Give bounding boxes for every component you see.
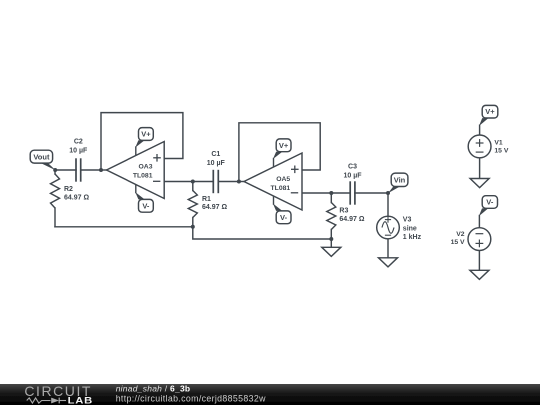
node flag V+ <box>479 125 481 136</box>
svg-text:LAB: LAB <box>68 396 93 405</box>
wire V3 to ground <box>387 239 389 258</box>
svg-text:R1: R1 <box>202 196 211 203</box>
wire to ground <box>479 158 481 179</box>
wire to ground <box>478 251 480 271</box>
svg-text:TL081: TL081 <box>133 172 153 179</box>
junction node rail left <box>191 225 195 229</box>
resistor R3 <box>327 203 336 230</box>
junction node rail right <box>329 237 333 241</box>
+ marker <box>385 217 391 223</box>
wire C1 to OA5 output node <box>218 181 239 183</box>
voltage source V1 <box>468 105 509 187</box>
svg-text:64.97 Ω: 64.97 Ω <box>339 216 364 223</box>
svg-text:V+: V+ <box>141 130 151 139</box>
node flag V- <box>478 215 480 228</box>
svg-text:1 kHz: 1 kHz <box>403 234 422 241</box>
svg-text:V-: V- <box>280 213 288 222</box>
capacitor C2 <box>76 158 81 181</box>
capacitor C1 <box>213 170 218 193</box>
svg-text:Vout: Vout <box>33 152 50 161</box>
wire R2 top lead <box>54 170 56 174</box>
ground below V1 <box>470 179 489 188</box>
ground below V3 <box>379 258 398 267</box>
junction node at OA3 output <box>99 168 103 172</box>
op-amp U2 OA5 <box>244 153 302 210</box>
svg-text:http://circuitlab.com/cerjd885: http://circuitlab.com/cerjd8855832w <box>116 393 266 403</box>
svg-text:V+: V+ <box>485 107 495 116</box>
svg-text:C1: C1 <box>211 151 220 158</box>
svg-text:C3: C3 <box>348 163 357 170</box>
- input marker <box>153 180 160 182</box>
svg-text:TL081: TL081 <box>271 185 291 192</box>
sine glyph <box>382 222 394 234</box>
svg-text:V1: V1 <box>494 140 503 147</box>
wire ground stem below R3 <box>330 239 332 247</box>
svg-text:OA3: OA3 <box>139 163 153 170</box>
voltage source V3 (sine) <box>377 216 422 241</box>
ground below R3 <box>322 247 341 256</box>
svg-text:C2: C2 <box>74 139 83 146</box>
svg-text:10 µF: 10 µF <box>69 147 88 154</box>
ground below V2 <box>470 270 489 279</box>
svg-text:10 µF: 10 µF <box>207 160 226 167</box>
junction node at OA5 output <box>237 180 241 184</box>
wire bottom rail R2 to R1 <box>55 226 193 228</box>
node flag Vin <box>388 173 408 193</box>
wire R3 bottom lead <box>330 230 332 240</box>
wire C3 to Vin node <box>355 192 388 194</box>
wire Vin node down to V3 <box>387 193 389 216</box>
junction node at R1 top <box>191 180 195 184</box>
node flag V- (OA5 power) <box>273 196 291 224</box>
junction node at Vin <box>386 191 390 195</box>
- marker <box>385 234 391 236</box>
wire R1 top lead <box>192 182 194 191</box>
svg-text:R2: R2 <box>64 186 73 193</box>
V2 body <box>468 228 491 251</box>
wire OA3 inverting input to R1 node <box>164 181 213 183</box>
wire R1 bottom lead <box>192 218 194 227</box>
svg-text:15 V: 15 V <box>494 148 508 155</box>
CircuitLab logo: diode symbol <box>51 398 59 404</box>
wire OA5 output stub <box>239 181 244 183</box>
CircuitLab logo: resistor squiggle <box>27 398 51 403</box>
+ input marker <box>153 154 161 162</box>
op-amp U1 OA3 <box>107 142 165 199</box>
junction node at R3 top <box>329 191 333 195</box>
node flag V- (OA3 power) <box>135 184 153 212</box>
wire Vout node to C2 <box>55 169 76 171</box>
resistor R1 <box>188 191 197 218</box>
svg-text:sine: sine <box>403 226 417 233</box>
svg-text:64.97 Ω: 64.97 Ω <box>64 194 89 201</box>
junction node at Vout <box>53 168 57 172</box>
svg-text:15 V: 15 V <box>451 239 465 246</box>
svg-text:ninad_shah / 6_3b: ninad_shah / 6_3b <box>116 383 191 393</box>
V1 body <box>468 135 491 158</box>
wire R3 top lead <box>330 193 332 203</box>
node flag V+ (OA5 power) <box>273 139 291 167</box>
svg-text:64.97 Ω: 64.97 Ω <box>202 204 227 211</box>
wire OA5 feedback loop <box>239 123 320 182</box>
svg-text:Vin: Vin <box>394 175 406 184</box>
svg-text:V-: V- <box>486 198 494 207</box>
wire C2 to OA3 output node <box>81 169 101 171</box>
voltage source V2 <box>451 196 498 280</box>
svg-text:V2: V2 <box>456 231 465 238</box>
wire OA3 output stub <box>101 169 107 171</box>
wire R2 bottom lead <box>54 208 56 227</box>
svg-text:V3: V3 <box>403 217 412 224</box>
resistor R2 <box>51 174 60 208</box>
wire OA3 feedback loop <box>101 113 183 170</box>
- input marker <box>291 192 298 194</box>
wire rail step down <box>193 227 331 239</box>
svg-text:V-: V- <box>142 201 150 210</box>
+ input marker <box>291 166 299 174</box>
node flag V+ (OA3 power) <box>135 128 153 156</box>
node flag Vout <box>30 150 55 170</box>
svg-text:OA5: OA5 <box>276 176 290 183</box>
svg-text:V+: V+ <box>279 141 289 150</box>
wire OA5 inverting input to R3 node <box>302 192 350 194</box>
capacitor C3 <box>350 181 355 204</box>
svg-text:10 µF: 10 µF <box>343 172 362 179</box>
svg-text:R3: R3 <box>339 207 348 214</box>
